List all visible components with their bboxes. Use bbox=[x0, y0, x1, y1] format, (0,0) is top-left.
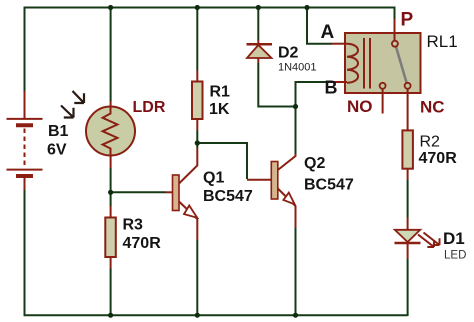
transistor Q2 base pin bbox=[247, 179, 271, 181]
svg-text:B1: B1 bbox=[48, 123, 69, 140]
junction bottom Q1 bbox=[195, 313, 200, 318]
resistor R1 top pin bbox=[196, 71, 198, 82]
wire D2 top bbox=[257, 8, 259, 41]
svg-text:BC547: BC547 bbox=[304, 177, 354, 194]
diode D2 bottom pin bbox=[257, 58, 259, 63]
relay core line 2 bbox=[369, 38, 371, 89]
svg-text:D1: D1 bbox=[443, 229, 465, 248]
junction top R1 bbox=[195, 5, 200, 10]
relay NO contact bbox=[380, 83, 386, 89]
wire LDR top bbox=[110, 8, 112, 102]
transistor Q2 collector pin bbox=[278, 154, 296, 170]
resistor R1 bottom pin bbox=[196, 119, 198, 131]
wire R1 bottom bbox=[196, 131, 198, 149]
LDR pin bottom bbox=[110, 156, 112, 169]
junction bottom R3 bbox=[108, 313, 113, 318]
relay coil arcs bbox=[347, 44, 358, 83]
transistor Q1 emitter arrow bbox=[184, 206, 197, 218]
relay NO stub bbox=[382, 89, 384, 114]
wire bottom rail bbox=[24, 314, 408, 316]
diode D2 top pin bbox=[257, 40, 259, 44]
LDR body circle bbox=[86, 107, 135, 156]
svg-text:P: P bbox=[401, 10, 414, 31]
wire LED bottom bbox=[407, 259, 409, 316]
wire Q1 emitter to bottom rail bbox=[196, 240, 198, 315]
diode D2 cathode bar bbox=[247, 43, 273, 46]
svg-text:470R: 470R bbox=[419, 150, 458, 167]
wire R1 top bbox=[196, 8, 198, 71]
junction bottom Q2 bbox=[293, 313, 298, 318]
LED D1 bottom pin bbox=[407, 243, 409, 259]
LED D1 triangle bbox=[395, 230, 420, 242]
svg-text:NO: NO bbox=[347, 97, 373, 116]
wire node R1 to Q2 base bbox=[197, 143, 247, 179]
svg-text:6V: 6V bbox=[47, 142, 67, 159]
battery B1 plate short bottom bbox=[16, 174, 33, 178]
wire Q1 base bbox=[111, 191, 166, 193]
svg-text:470R: 470R bbox=[123, 235, 162, 252]
resistor R1 body bbox=[192, 82, 203, 120]
svg-text:R2: R2 bbox=[420, 134, 441, 151]
diode D2 triangle bbox=[247, 45, 272, 58]
LED D1 cathode bar bbox=[395, 242, 421, 245]
svg-text:R3: R3 bbox=[123, 217, 144, 234]
svg-text:R1: R1 bbox=[210, 84, 231, 101]
svg-text:A: A bbox=[321, 22, 335, 43]
wire relay P stub bbox=[394, 7, 396, 20]
battery B1 plate long bottom bbox=[7, 169, 43, 171]
svg-text:LDR: LDR bbox=[133, 99, 166, 116]
junction top D2 bbox=[256, 5, 261, 10]
battery B1 plate long top bbox=[7, 118, 43, 120]
junction LDR R3 base bbox=[108, 190, 113, 195]
svg-text:1N4001: 1N4001 bbox=[278, 62, 317, 74]
battery B1 bottom pin bbox=[24, 178, 26, 191]
battery B1 plate short top bbox=[16, 123, 33, 127]
LDR pin top bbox=[110, 101, 112, 107]
svg-text:RL1: RL1 bbox=[427, 32, 458, 51]
relay RL1 body bbox=[345, 33, 421, 93]
wire node A bbox=[307, 8, 332, 44]
battery B1 top pin bbox=[24, 91, 26, 118]
LED D1 emit arrow 2 bbox=[424, 233, 440, 246]
junction top LDR bbox=[108, 5, 113, 10]
LDR light arrow 2 bbox=[61, 106, 74, 118]
wire node B bbox=[296, 82, 333, 107]
resistor R2 bottom pin bbox=[407, 169, 409, 180]
LED D1 top pin bbox=[407, 218, 409, 230]
svg-text:B: B bbox=[325, 78, 338, 98]
junction R1 Q1 collector bbox=[195, 140, 200, 145]
resistor R3 top pin bbox=[110, 206, 112, 218]
svg-text:NC: NC bbox=[420, 98, 445, 117]
svg-text:1K: 1K bbox=[209, 101, 230, 118]
wire Q2 emitter to bottom rail bbox=[295, 228, 297, 315]
svg-text:BC547: BC547 bbox=[203, 188, 253, 205]
transistor Q2 bar bbox=[271, 162, 278, 200]
junction D2 Q2 collector bbox=[293, 104, 298, 109]
wire D2 bottom to node B branch bbox=[258, 63, 295, 107]
transistor Q1 bar bbox=[173, 175, 180, 211]
resistor R3 body bbox=[105, 218, 116, 258]
relay core line 1 bbox=[363, 38, 365, 89]
svg-text:D2: D2 bbox=[278, 45, 299, 62]
transistor Q1 base pin bbox=[166, 191, 173, 193]
relay P pin bbox=[394, 19, 396, 41]
svg-text:LED: LED bbox=[444, 250, 466, 262]
LED D1 emit arrow 1 bbox=[418, 235, 434, 248]
relay pin A stub bbox=[332, 43, 347, 45]
relay pin B stub bbox=[332, 81, 347, 83]
LDR zigzag bbox=[103, 107, 118, 156]
wire R2 to LED bbox=[407, 180, 409, 218]
wire top rail bbox=[25, 7, 395, 9]
wire left rail upper bbox=[24, 7, 26, 92]
battery B1 dashed link bbox=[24, 129, 26, 167]
relay NC pin bbox=[407, 89, 409, 131]
LDR light arrow 1 bbox=[73, 91, 85, 103]
svg-text:Q1: Q1 bbox=[203, 170, 224, 187]
transistor Q1 collector pin bbox=[179, 148, 197, 184]
wire left rail lower bbox=[24, 190, 26, 316]
svg-text:Q2: Q2 bbox=[304, 155, 325, 172]
relay switch arm bbox=[396, 47, 407, 83]
transistor Q2 emitter pin bbox=[278, 189, 296, 229]
junction top A bbox=[304, 5, 309, 10]
transistor Q1 emitter pin bbox=[179, 202, 197, 241]
wire R3 bottom bbox=[110, 269, 112, 316]
relay pivot contact bbox=[392, 41, 398, 47]
resistor R3 bottom pin bbox=[110, 257, 112, 269]
resistor R2 body bbox=[402, 130, 413, 168]
wire LDR bottom to base node bbox=[110, 168, 112, 206]
transistor Q2 emitter arrow bbox=[283, 193, 294, 205]
wire Q2 collector up bbox=[295, 107, 297, 155]
relay NC contact bbox=[405, 83, 411, 89]
